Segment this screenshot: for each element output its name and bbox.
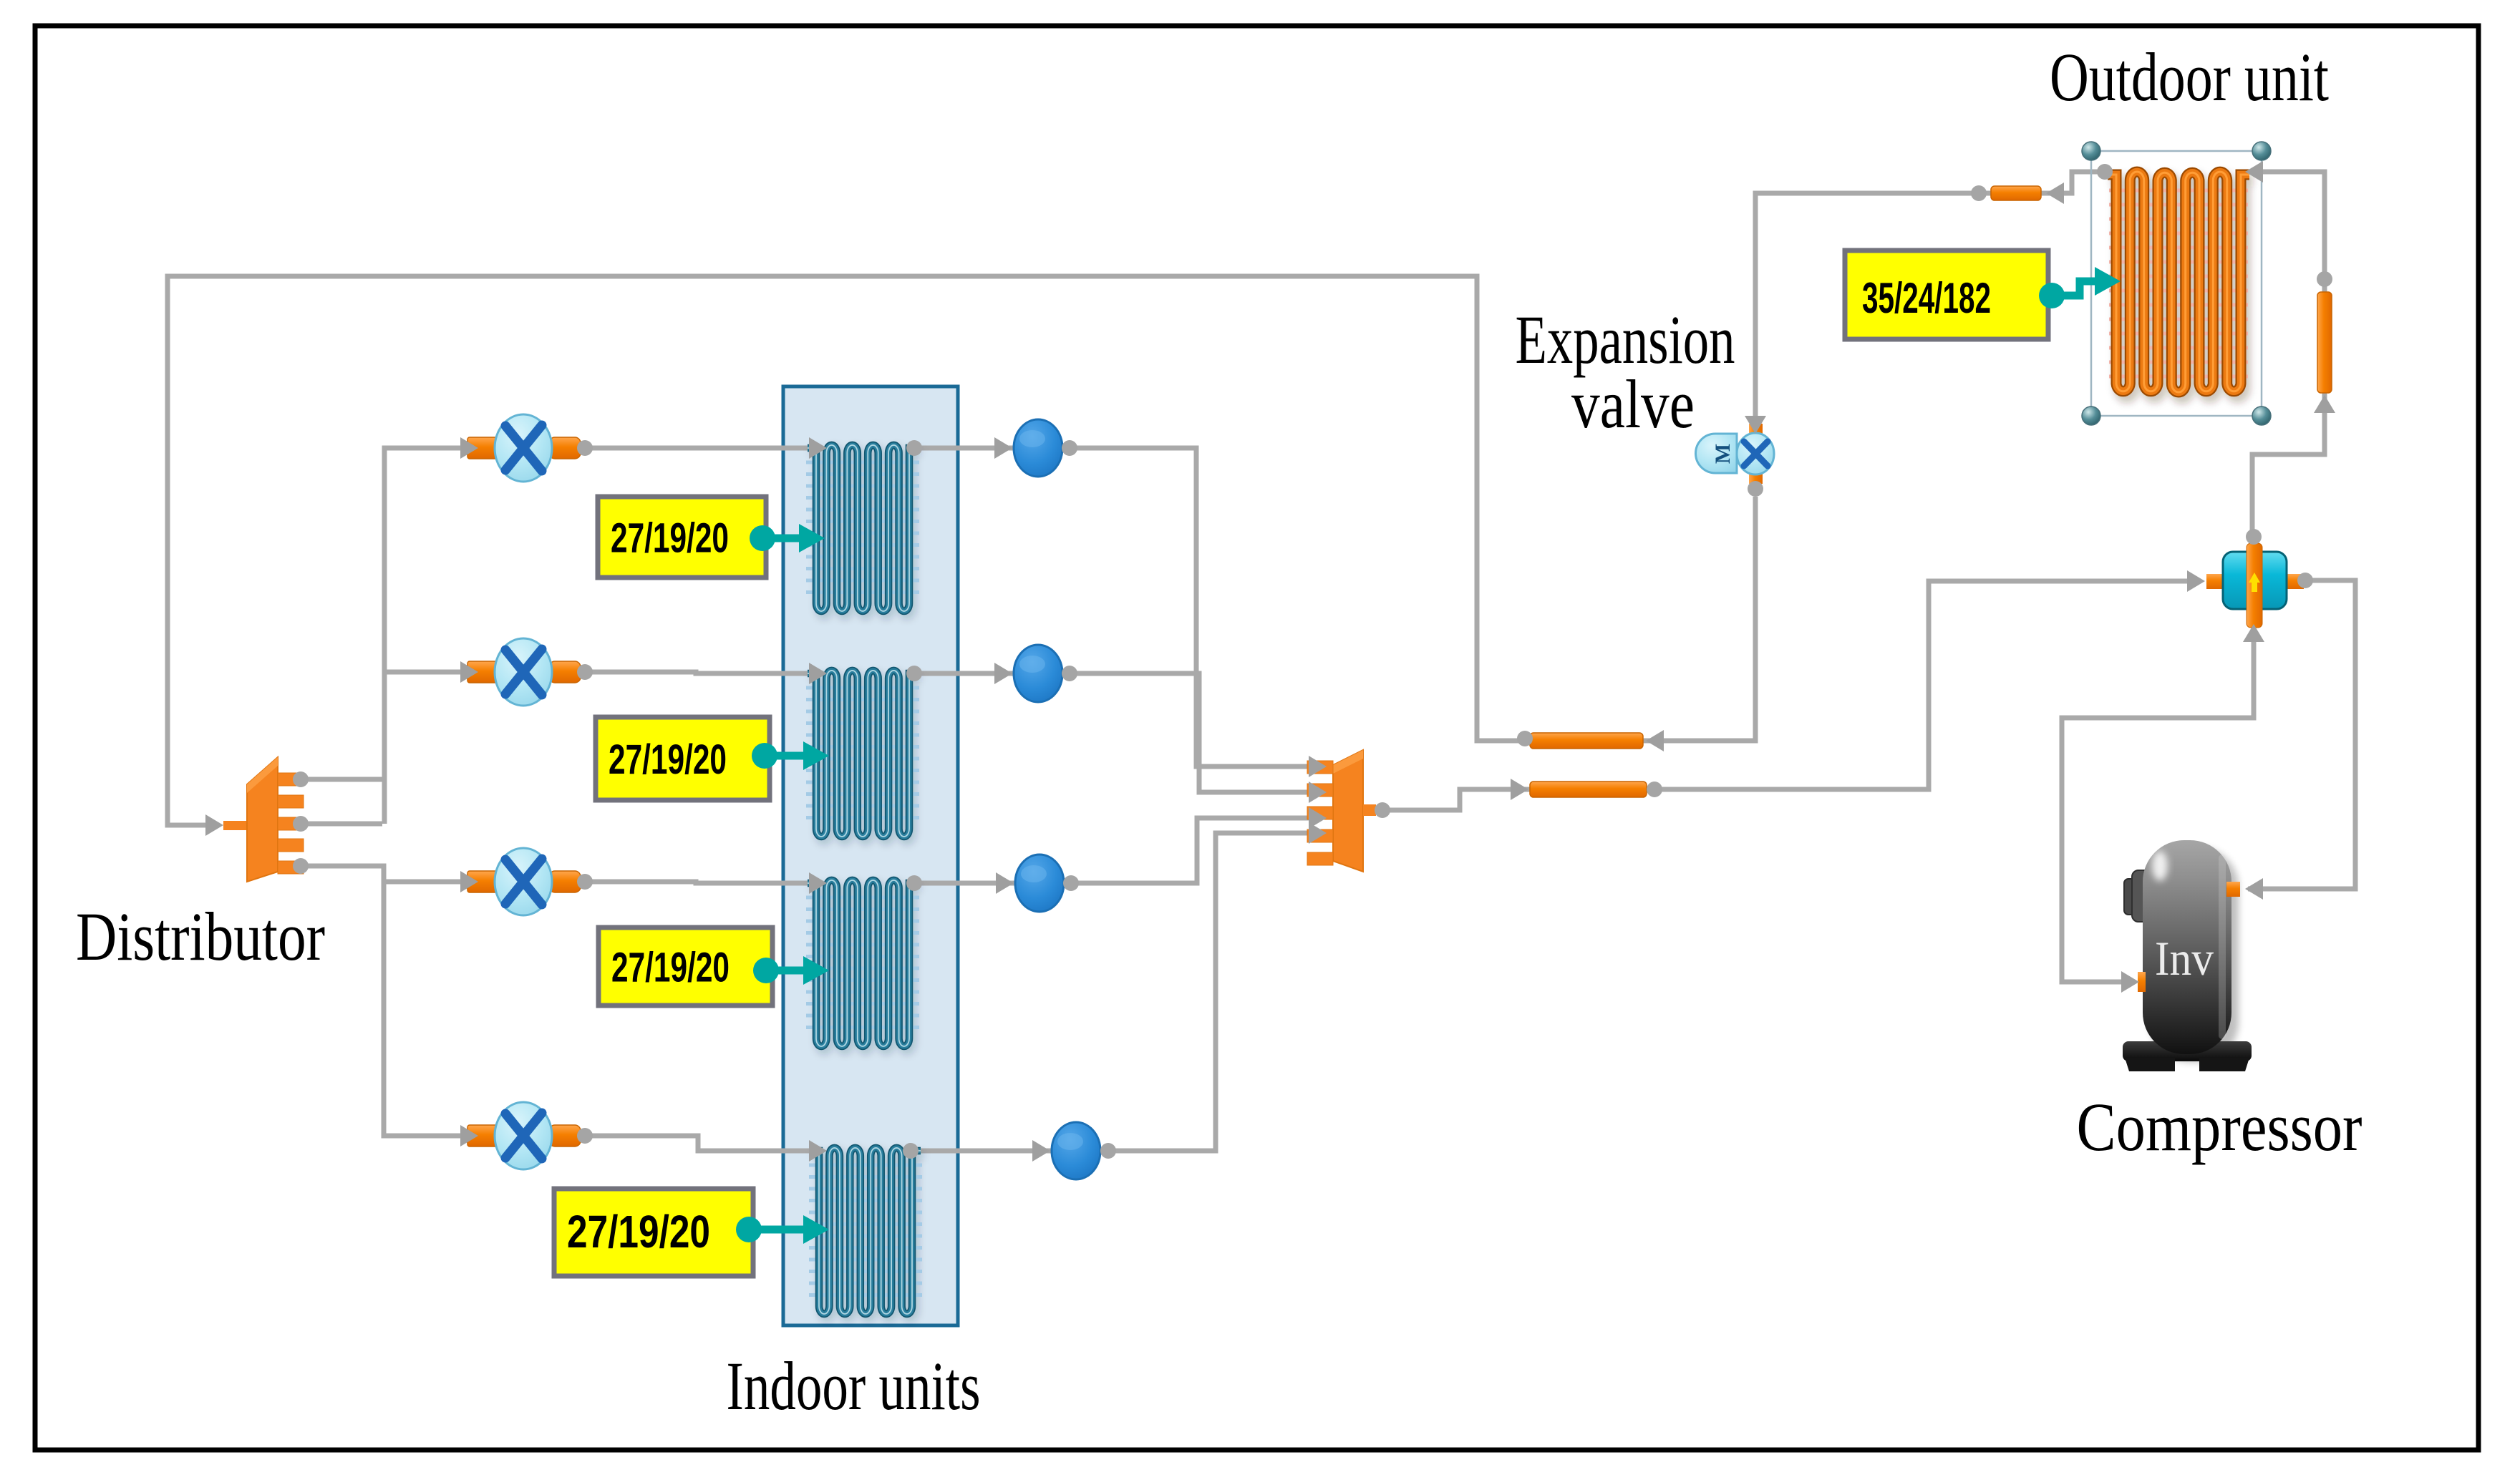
svg-text:valve: valve [1571, 366, 1695, 442]
arrow into valve row 4 [460, 1125, 478, 1146]
junction at pipe B right [1647, 782, 1662, 797]
svg-text:27/19/20: 27/19/20 [609, 736, 727, 783]
junction at pipe A left [1517, 731, 1533, 746]
shutoff valve row 4 [467, 1102, 581, 1169]
svg-text:Outdoor unit: Outdoor unit [2050, 39, 2329, 115]
wire row4 coil to fan 4 [911, 1149, 1055, 1154]
outdoor unit selection box [2091, 151, 2262, 416]
indoor unit coil 1 [806, 445, 921, 615]
wire row3 valve to indoor coil 3 [591, 882, 816, 883]
arrow into mixer port 3 [1309, 807, 1327, 829]
wire distributor port 2 to trunk [301, 822, 382, 827]
shutoff valve row 1 [467, 414, 581, 482]
arrow at outdoor right pipe bottom [2314, 395, 2335, 413]
junction on outdoor right pipe [2317, 271, 2332, 287]
junction after fan 2 [1062, 666, 1077, 681]
junction after valve row 4 [577, 1128, 593, 1144]
mixer body [1333, 750, 1363, 872]
svg-text:Inv: Inv [2155, 931, 2214, 985]
refrigerant pipe segment at outdoor unit inlet [1991, 186, 2041, 200]
junction at outdoor inlet pipe [1971, 185, 1987, 201]
mixer outlet stub [1363, 804, 1376, 816]
distributor tooth 4 [278, 839, 304, 852]
arrow into valve row 3 [460, 871, 478, 892]
outdoor unit coil [2108, 172, 2253, 398]
junction distributor port 3 [293, 858, 309, 874]
wire row3 fan to mixer port 3 [1071, 818, 1314, 883]
junction indoor coil 1 outlet [906, 440, 922, 456]
junction after valve row 1 [577, 440, 593, 456]
wire row1 fan to mixer port 1 [1070, 448, 1314, 766]
distributor tooth 3 [278, 817, 304, 830]
wire row2 valve to indoor coil 2 [591, 672, 816, 673]
selection handle sphere [2252, 142, 2271, 160]
fan 2 (blue pump circle) [1014, 645, 1062, 702]
arrow into indoor coil 1 [809, 437, 827, 459]
arrow into outdoor coil top-right [2245, 161, 2263, 182]
svg-text:27/19/20: 27/19/20 [567, 1206, 710, 1257]
mixer tooth 3 [1307, 807, 1333, 819]
arrow into mixer port 1 [1309, 756, 1327, 777]
arrow into distributor inlet [205, 814, 223, 836]
junction below expansion valve [1748, 481, 1763, 497]
refrigerant pipe segment at outdoor unit right [2317, 292, 2332, 393]
wire 4-way valve right to compressor right port [2248, 580, 2355, 889]
distributor tooth 5 [278, 861, 304, 874]
indoor units enclosure box [783, 386, 958, 1325]
compressor body [2123, 840, 2252, 1071]
yellow label 27/19/20 (room 3) [598, 928, 829, 1006]
arrow into indoor coil 3 [809, 872, 827, 894]
expansion valve body [1737, 0, 1774, 484]
distributor inlet stub [223, 821, 248, 830]
junction after fan 3 [1063, 875, 1079, 891]
arrow into 4-way valve bottom [2243, 624, 2264, 642]
selection handle sphere [2082, 142, 2100, 160]
arrow into expansion valve top [1745, 416, 1766, 434]
shutoff valve row 3 [467, 848, 581, 915]
wire row2 fan to mixer port 2 [1070, 673, 1314, 792]
fan 4 (blue pump circle) [1052, 1122, 1100, 1179]
arrow at pipe A right end [1646, 730, 1664, 751]
arrow into valve row 2 [460, 661, 478, 683]
wire row1 valve to indoor coil 1 [591, 446, 816, 451]
arrow at pipe B left end [1511, 779, 1528, 800]
junction distributor port 2 [293, 816, 309, 832]
wire row1 coil to fan 1 [914, 446, 1017, 451]
junction mixer output [1375, 802, 1390, 818]
junction after fan 1 [1062, 440, 1077, 456]
arrow into valve row 1 [460, 437, 478, 459]
arrow into mixer port 4 [1309, 822, 1327, 844]
mixer tooth 1 [1307, 761, 1333, 774]
mixer tooth 5 [1307, 852, 1333, 865]
wire row4 fan to mixer port 4 [1108, 833, 1314, 1151]
distributor tooth 1 [278, 773, 304, 786]
arrow into 4-way valve left [2187, 570, 2205, 592]
junction after valve row 2 [577, 664, 593, 680]
junction indoor coil 4 outlet [903, 1143, 919, 1159]
wire distributor trunk to valve row 1 [384, 448, 464, 824]
fan 1 (blue pump circle) [1014, 419, 1062, 477]
arrow into fan 1 [994, 437, 1012, 459]
shutoff valve row 2 [467, 638, 581, 706]
junction 4-way valve top [2246, 529, 2262, 545]
junction after valve row 3 [577, 874, 593, 890]
svg-text:Compressor: Compressor [2077, 1089, 2362, 1165]
junction indoor coil 2 outlet [906, 666, 922, 681]
arrow at outdoor inlet pipe [2046, 182, 2064, 204]
svg-text:Distributor: Distributor [76, 898, 325, 975]
wire distributor port 1 to trunk [301, 777, 384, 782]
yellow label 27/19/20 (room 1) [598, 497, 825, 578]
distributor body [247, 757, 278, 882]
wire row4 valve to indoor coil 4 [591, 1136, 816, 1151]
wire outdoor-unit top-left to expansion-valve top [1755, 172, 2105, 429]
svg-text:27/19/20: 27/19/20 [611, 945, 730, 991]
expansion valve motor M [1696, 434, 1740, 473]
wire trunk branch to valve row 2 [384, 670, 464, 675]
wire outdoor-unit top-right down to 4-way valve top [2248, 172, 2325, 535]
mixer tooth 4 [1307, 829, 1333, 842]
selection handle sphere [2252, 406, 2271, 425]
indoor unit coil 4 [809, 1148, 924, 1318]
arrow into indoor coil 2 [809, 663, 827, 684]
wire trunk branch to valve row 3 [384, 880, 464, 885]
refrigerant pipe segment A (liquid line) [1530, 733, 1643, 749]
svg-text:Indoor units: Indoor units [727, 1348, 981, 1424]
wire row3 coil to fan 3 [914, 881, 1018, 886]
yellow label 27/19/20 (room 2) [596, 717, 829, 800]
refrigerant pipe segment B (suction line) [1530, 782, 1647, 797]
junction indoor coil 3 outlet [906, 875, 922, 891]
arrow into compressor right port [2245, 878, 2263, 900]
svg-text:27/19/20: 27/19/20 [611, 515, 729, 562]
wire mixer output to 4-way valve left [1382, 581, 2198, 810]
arrow into mixer port 2 [1309, 782, 1327, 803]
arrow into fan 3 [996, 872, 1014, 894]
wire 4-way valve bottom to compressor left port [2062, 630, 2254, 982]
arrow into indoor coil 4 [809, 1140, 827, 1162]
distributor tooth 2 [278, 795, 304, 808]
junction outdoor coil top-left port [2097, 164, 2113, 180]
arrow into fan 4 [1032, 1140, 1050, 1162]
wire expansion-valve to distributor (liquid line) [168, 276, 1755, 825]
junction distributor port 1 [293, 771, 309, 787]
wire distributor port 3 down to valve row 4 [301, 866, 464, 1136]
wire row2 coil to fan 2 [914, 671, 1017, 676]
yellow label 27/19/20 (room 4) [554, 1189, 829, 1276]
4-way reversing valve [2206, 543, 2304, 628]
fan 3 (blue pump circle) [1015, 855, 1064, 912]
svg-text:M: M [1711, 444, 1735, 464]
arrow into compressor left port [2121, 971, 2139, 993]
indoor unit coil 2 [806, 671, 921, 841]
indoor unit coil 3 [806, 880, 921, 1051]
svg-text:35/24/182: 35/24/182 [1862, 274, 1991, 322]
mixer tooth 2 [1307, 784, 1333, 797]
junction after fan 4 [1100, 1143, 1116, 1159]
arrow into fan 2 [994, 663, 1012, 684]
yellow label 35/24/182 (outdoor) [1845, 250, 2121, 339]
junction 4-way valve right [2297, 573, 2313, 588]
selection handle sphere [2082, 406, 2100, 425]
